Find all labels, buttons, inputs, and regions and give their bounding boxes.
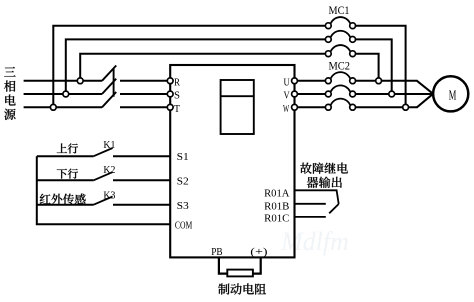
terminal W [283, 103, 297, 115]
terminal V [284, 90, 298, 102]
wire bypass bus from L1 to MC1 row3 [80, 54, 325, 81]
svg-text:S: S [174, 90, 180, 102]
node tap L1 [77, 78, 83, 84]
wire QS to S [120, 93, 167, 95]
wire resistor to (+) [253, 257, 261, 273]
svg-text:S2: S2 [177, 175, 189, 187]
net label 三相电源 (three-phase supply) [4, 67, 16, 120]
node tap L3 [50, 104, 56, 110]
svg-text:R01B: R01B [264, 201, 289, 213]
wire PB to resistor [219, 257, 227, 273]
svg-text:R: R [174, 76, 181, 88]
svg-text:(+): (+) [250, 246, 268, 258]
switch K2 [37, 164, 170, 180]
switch K2 label 下行 (down) [57, 169, 78, 179]
wire bypass bus from L2 to MC1 row2 [66, 39, 326, 94]
contactor MC1 contact pole3 [325, 45, 355, 57]
switch K1 label 上行 (up) [57, 143, 78, 153]
terminal R01A label [264, 187, 289, 199]
node junction U [376, 78, 382, 84]
motor M [433, 76, 468, 111]
wire R01A [295, 190, 339, 204]
svg-text:R01A: R01A [264, 187, 289, 199]
wire phase L3 [24, 106, 102, 108]
wire MC2 pole3 to motor (W) [356, 94, 434, 108]
contactor MC2 contact pole3 [325, 99, 355, 111]
wire W to MC2 pole3 [297, 106, 325, 108]
svg-text:Mdlfm: Mdlfm [280, 227, 349, 256]
wire V to MC2 pole2 [297, 93, 325, 95]
terminal COM label [175, 221, 192, 232]
node tap L2 [63, 91, 69, 97]
label 器输出 (output) [307, 177, 342, 188]
svg-text:T: T [174, 103, 180, 115]
svg-text:R01C: R01C [264, 213, 289, 225]
svg-text:MC1: MC1 [329, 5, 350, 17]
wire R01B [295, 203, 326, 205]
terminal R01C label [264, 213, 289, 225]
switch K3 [37, 190, 170, 205]
label 故障继电 (fault relay) [300, 163, 348, 174]
svg-text:M: M [449, 87, 457, 102]
wire MC1 pole2 to V junction [356, 39, 392, 91]
terminal S3 label [177, 200, 190, 212]
terminal R01B label [264, 201, 289, 213]
contactor MC1 contact pole1 [325, 17, 355, 29]
wire MC1 pole1 to W junction [356, 26, 406, 105]
node junction W [403, 104, 409, 110]
svg-text:S3: S3 [177, 200, 190, 212]
relay contact blade [329, 204, 339, 213]
terminal PB label [211, 246, 222, 258]
svg-text:S1: S1 [177, 151, 189, 163]
terminal S2 label [177, 175, 189, 187]
switch K1 [37, 139, 170, 156]
resistor 制动电阻 (braking resistor) [227, 270, 253, 277]
node junction V [389, 91, 395, 97]
terminal S1 label [177, 151, 189, 163]
terminal T [167, 103, 180, 115]
wire U to MC2 pole1 [297, 80, 325, 82]
terminal U [284, 76, 298, 88]
terminal S [167, 90, 180, 102]
wire MC2 pole2 to motor (V) [356, 93, 434, 95]
svg-text:U: U [284, 76, 290, 88]
wire R01C [295, 216, 326, 218]
wire phase L2 [24, 93, 102, 95]
switch K3 label 红外传感 (IR sensor) [40, 194, 86, 205]
svg-text:W: W [283, 103, 290, 115]
wire QS to T [120, 106, 167, 108]
wire QS to R [120, 80, 167, 82]
contactor MC2 label [329, 60, 351, 72]
breaker QS (3-pole knife switch) [102, 66, 116, 108]
inverter U1 (VFD) outline [170, 65, 294, 257]
wire phase L1 [24, 80, 102, 82]
svg-text:MC2: MC2 [329, 60, 351, 72]
wire common bus to COM [37, 156, 170, 224]
contactor MC1 contact pole2 [325, 31, 355, 43]
contactor MC2 contact pole1 [325, 72, 355, 84]
svg-text:PB: PB [211, 246, 222, 258]
wire MC1 pole3 to U junction [356, 54, 379, 78]
svg-text:COM: COM [175, 221, 192, 232]
terminal R [167, 76, 180, 88]
contactor MC2 contact pole2 [325, 85, 355, 97]
label 制动电阻 [218, 283, 266, 294]
inverter keypad panel [221, 80, 254, 134]
watermark (faint) [280, 227, 349, 256]
svg-text:V: V [284, 90, 290, 102]
terminal (+) label [250, 246, 268, 258]
contactor MC1 label [329, 5, 350, 17]
wire MC2 pole1 to motor (U) [356, 81, 434, 94]
wire bypass bus from L3 to MC1 row1 [53, 26, 325, 108]
